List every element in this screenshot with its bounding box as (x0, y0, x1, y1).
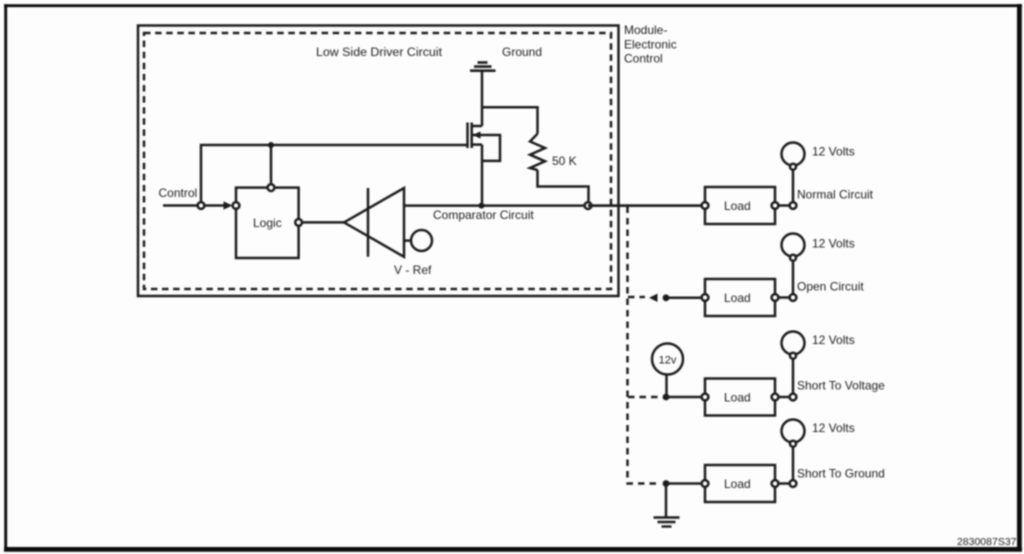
svg-text:Short To Voltage: Short To Voltage (797, 379, 885, 393)
svg-text:Comparator Circuit: Comparator Circuit (433, 208, 534, 222)
svg-text:V - Ref: V - Ref (394, 263, 432, 277)
svg-text:Electronic: Electronic (624, 37, 677, 51)
svg-text:Control: Control (159, 186, 198, 200)
svg-text:Logic: Logic (253, 216, 282, 230)
svg-text:12 Volts: 12 Volts (812, 237, 855, 251)
svg-text:12 Volts: 12 Volts (812, 333, 855, 347)
svg-text:12v: 12v (659, 355, 677, 367)
svg-text:Short To Ground: Short To Ground (797, 467, 885, 481)
svg-text:Open Circuit: Open Circuit (797, 280, 864, 294)
svg-text:Normal Circuit: Normal Circuit (797, 188, 874, 202)
svg-text:Load: Load (724, 291, 751, 305)
svg-text:Load: Load (724, 391, 751, 405)
svg-text:12 Volts: 12 Volts (812, 421, 855, 435)
svg-text:Module-: Module- (624, 23, 667, 37)
svg-text:Load: Load (724, 477, 751, 491)
svg-text:50 K: 50 K (552, 154, 577, 168)
svg-text:2830087S37: 2830087S37 (957, 536, 1017, 548)
svg-text:12 Volts: 12 Volts (812, 145, 855, 159)
svg-text:Ground: Ground (502, 45, 542, 59)
svg-text:Low Side Driver Circuit: Low Side Driver Circuit (316, 45, 443, 59)
svg-text:Control: Control (624, 52, 663, 66)
svg-text:Load: Load (724, 199, 751, 213)
